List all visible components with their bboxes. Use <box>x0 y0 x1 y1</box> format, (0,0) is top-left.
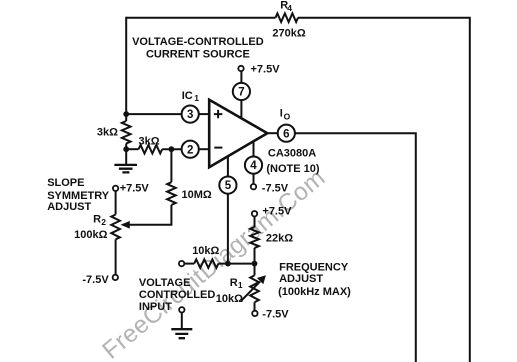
svg-text:VOLTAGE-CONTROLLED: VOLTAGE-CONTROLLED <box>132 36 264 48</box>
svg-text:10MΩ: 10MΩ <box>182 189 212 201</box>
svg-text:ADJUST: ADJUST <box>47 201 91 213</box>
svg-text:FREQUENCY: FREQUENCY <box>279 261 349 273</box>
svg-text:7: 7 <box>238 87 244 99</box>
R1 arrow <box>241 282 260 302</box>
pin 4 <box>253 141 255 184</box>
svg-text:INPUT: INPUT <box>139 301 172 313</box>
svg-text:SLOPE: SLOPE <box>47 177 84 189</box>
wire left vertical <box>125 17 127 121</box>
svg-text:5: 5 <box>225 180 232 192</box>
terminal +7.5V 22k top <box>252 211 257 216</box>
svg-text:+7.5V: +7.5V <box>262 206 292 218</box>
wiper arrow R2 <box>121 221 130 229</box>
resistor 3k horizontal <box>126 148 138 150</box>
svg-text:-7.5V: -7.5V <box>262 183 289 195</box>
svg-text:R: R <box>93 214 101 226</box>
svg-text:3kΩ: 3kΩ <box>139 135 160 147</box>
terminal input ground <box>179 307 184 312</box>
node pin3 junction <box>123 111 129 117</box>
svg-text:6: 6 <box>283 128 289 140</box>
svg-text:100kΩ: 100kΩ <box>74 229 107 241</box>
svg-text:270kΩ: 270kΩ <box>272 27 305 39</box>
svg-text:10kΩ: 10kΩ <box>216 293 243 305</box>
op-amp U1 triangle <box>209 100 267 167</box>
svg-text:10kΩ: 10kΩ <box>192 245 219 257</box>
svg-text:+7.5V: +7.5V <box>251 63 281 75</box>
svg-text:-7.5V: -7.5V <box>82 274 109 286</box>
svg-text:IC: IC <box>182 90 193 102</box>
svg-text:-7.5V: -7.5V <box>262 308 289 320</box>
svg-text:CURRENT SOURCE: CURRENT SOURCE <box>146 48 250 60</box>
node pin2 junction left <box>123 146 129 152</box>
op-amp plus input marker <box>214 110 222 118</box>
wire to pin3 <box>126 113 181 115</box>
terminal -7.5V pin4 <box>251 184 256 189</box>
wire top feedback <box>126 18 470 362</box>
resistor 3k vertical <box>122 121 131 144</box>
svg-text:3kΩ: 3kΩ <box>97 126 118 138</box>
svg-text:O: O <box>284 112 291 122</box>
svg-text:CA3080A: CA3080A <box>268 148 316 160</box>
svg-text:(100kHz MAX): (100kHz MAX) <box>278 286 351 298</box>
pin 7 <box>240 71 242 118</box>
svg-text:1: 1 <box>194 93 199 103</box>
svg-text:2: 2 <box>101 217 106 227</box>
resistor 10k input <box>179 261 184 266</box>
pin 2 <box>182 141 199 158</box>
resistor 10M <box>170 149 172 182</box>
svg-text:SYMMETRY: SYMMETRY <box>47 190 110 202</box>
terminal +7.5V pin7 <box>238 66 243 71</box>
svg-text:(NOTE 10): (NOTE 10) <box>266 163 320 175</box>
ground input <box>171 329 192 338</box>
terminal -7.5V R2 bottom <box>113 275 118 280</box>
wire output to right <box>295 133 416 362</box>
pin 6 output <box>267 132 277 134</box>
svg-text:1: 1 <box>238 280 243 290</box>
svg-text:VOLTAGE: VOLTAGE <box>139 277 191 289</box>
svg-text:+7.5V: +7.5V <box>120 183 150 195</box>
svg-text:I: I <box>280 108 283 120</box>
svg-text:2: 2 <box>187 144 193 156</box>
node 10M junction <box>169 146 175 152</box>
ground <box>114 165 137 173</box>
svg-text:3: 3 <box>187 109 193 121</box>
node R1 22k junction <box>252 261 258 267</box>
resistor R4 <box>276 13 299 22</box>
svg-text:R: R <box>230 277 238 289</box>
pin 5 <box>227 156 229 263</box>
pin 3 <box>182 106 199 123</box>
terminal +7.5V R2 top <box>113 186 118 191</box>
svg-text:4: 4 <box>287 3 292 13</box>
svg-text:4: 4 <box>250 160 257 172</box>
potentiometer R1 <box>254 264 256 276</box>
svg-text:CONTROLLED: CONTROLLED <box>139 289 215 301</box>
node pin5 bottom junction <box>225 261 231 267</box>
svg-text:ADJUST: ADJUST <box>279 273 323 285</box>
op-amp minus input marker <box>214 147 222 149</box>
terminal -7.5V R1 bottom <box>252 311 257 316</box>
svg-text:22kΩ: 22kΩ <box>266 233 293 245</box>
